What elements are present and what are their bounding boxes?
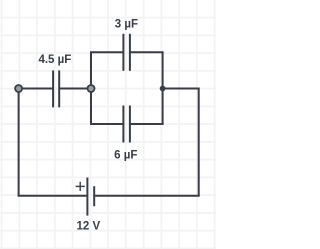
svg-text:12 V: 12 V (76, 220, 100, 232)
node terminal middle (88, 85, 95, 92)
svg-text:4.5 µF: 4.5 µF (38, 54, 71, 66)
wire (162, 52, 164, 124)
battery V1 negative short plate (93, 186, 95, 206)
wire (59, 88, 91, 90)
capacitor C2 3 uF plates (123, 34, 129, 71)
wire (130, 51, 164, 53)
wire (18, 195, 88, 197)
battery V1 polarity plus sign (76, 182, 85, 191)
wire (90, 89, 92, 125)
wire (19, 88, 53, 90)
capacitor C3 6 uF plates (123, 106, 129, 143)
battery V1 positive long plate (86, 178, 88, 216)
node terminal left (15, 85, 22, 92)
wire (94, 195, 200, 197)
wire (198, 88, 200, 196)
svg-text:3 µF: 3 µF (115, 18, 138, 30)
wire (163, 88, 199, 90)
capacitor C1 4.5 uF plates (53, 70, 59, 107)
svg-text:6 µF: 6 µF (114, 150, 137, 162)
wire (90, 123, 123, 125)
node junction dot (160, 86, 166, 92)
wire (90, 51, 123, 53)
wire (18, 89, 20, 196)
wire (130, 123, 164, 125)
wire (90, 52, 92, 88)
